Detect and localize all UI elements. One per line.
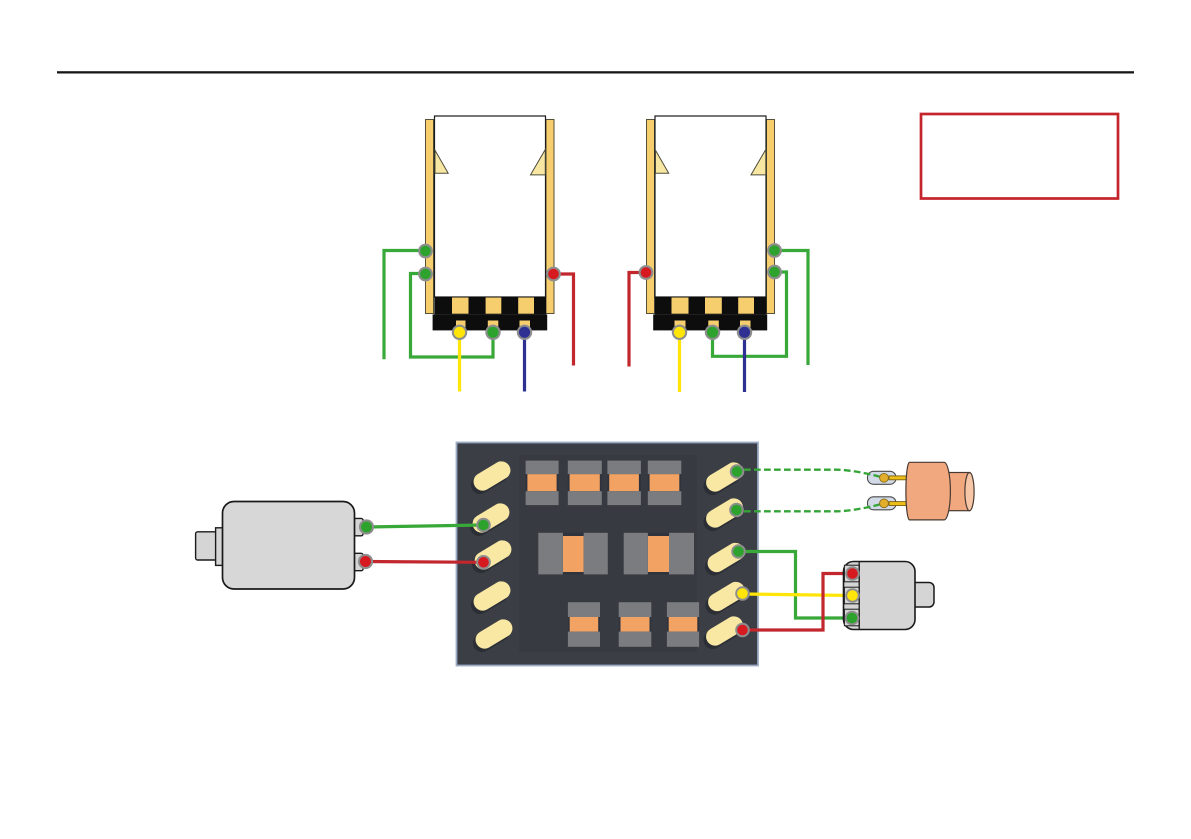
pad L2: [467, 503, 511, 539]
wire pot green (pad R3 to lug 3): [739, 552, 853, 619]
jack dot green: [359, 519, 374, 534]
pot lug cell 3: [844, 609, 859, 626]
output jack J1: [196, 502, 491, 590]
P1 solder dot green upper: [418, 244, 433, 259]
P2 body: [655, 116, 766, 297]
crimp terminal lower: [868, 497, 897, 510]
pad dot R4 yellow: [735, 586, 750, 601]
wire P1 red (from right dot, dangling): [554, 274, 574, 366]
pad dot R5 red: [735, 623, 750, 638]
jack lug tab upper: [354, 518, 364, 535]
capacitor C1: [538, 533, 608, 575]
resistor R1: [526, 461, 559, 506]
P2 baseplate gold square 2: [705, 298, 722, 314]
pot lug cell 2: [844, 587, 859, 604]
P1 lug tab 3: [520, 321, 531, 331]
pad R1: [700, 462, 744, 498]
pad L1: [468, 461, 512, 497]
P1 right gold rail: [546, 120, 554, 314]
pickup P2 (right humbucker, rear view): [629, 116, 808, 392]
wire jack red (to pad L3): [366, 560, 484, 564]
P1 baseplate lower row: [433, 314, 548, 330]
P2 baseplate gold square 1: [672, 298, 689, 314]
P2 baseplate gold square 3: [738, 298, 754, 314]
jack collar step: [216, 528, 225, 566]
crimp gold contact lower: [880, 499, 889, 508]
pad L3: [469, 540, 513, 576]
P2 baseplate lower row: [653, 314, 767, 330]
pot body: [844, 562, 916, 630]
P2 lug tab 1: [675, 321, 686, 331]
potentiometer VR1: [731, 544, 934, 637]
P2 left gold rail: [647, 120, 655, 314]
wire P2 green upper (to right, dangling): [775, 251, 809, 366]
P1 baseplate gold square 3: [518, 298, 534, 314]
pot divider line: [858, 562, 860, 630]
wire pot red (pad R5 to lug 1): [743, 574, 853, 631]
crimp terminal upper: [868, 471, 897, 484]
jack body: [223, 502, 355, 590]
resistor R7: [667, 602, 699, 647]
P2 lug tab 3: [740, 321, 751, 331]
pad R5: [700, 616, 744, 652]
wire jack green (to pad L2): [367, 525, 484, 527]
pad L5: [470, 619, 514, 655]
P2 right gold rail: [767, 120, 775, 314]
capacitor C2: [624, 533, 694, 575]
pot dot yellow: [845, 588, 860, 603]
P1 left gold rail: [426, 120, 434, 314]
P1 lug dot green: [485, 325, 500, 340]
wire P2 blue (dangling): [743, 333, 746, 392]
pad dot L3 red: [476, 555, 491, 570]
P2 lug dot yellow: [672, 325, 687, 340]
board substrate: [457, 443, 759, 666]
P1 lug dot blue: [517, 325, 532, 340]
wire P1 green upper (to left, dangling): [384, 251, 426, 360]
pickup P1 (left humbucker, rear view): [384, 116, 574, 392]
battery plug BT1: [729, 462, 974, 520]
P1 baseplate gold square 2: [486, 298, 502, 314]
pad R3: [702, 543, 746, 579]
P2 right corner flag: [751, 150, 766, 175]
pot dot green: [845, 611, 860, 626]
pot shaft: [910, 583, 934, 608]
pot dot red: [845, 566, 860, 581]
wire P2 red (to left, dangling): [629, 273, 646, 367]
pad L4: [468, 581, 512, 617]
P1 baseplate upper row: [434, 297, 546, 315]
pot lug cell 1: [844, 565, 859, 582]
P1 lug tab 1: [456, 321, 466, 331]
P1 baseplate gold square 1: [452, 298, 469, 314]
P2 solder dot green upper: [767, 243, 782, 258]
solderless terminal board U1: [457, 443, 759, 666]
plug pin lower: [889, 502, 908, 506]
resistor R5: [568, 602, 600, 647]
resistor R3: [607, 461, 641, 506]
wire dashed green lower (pad R2 to crimp): [744, 504, 883, 512]
P1 solder dot green lower: [418, 267, 433, 282]
wire P1 yellow (dangling): [458, 333, 461, 392]
pad dot R1 green: [730, 464, 745, 479]
P2 baseplate upper row: [655, 297, 767, 315]
P2 lug dot green: [705, 325, 720, 340]
P2 lug dot blue: [737, 325, 752, 340]
P2 lug tab 2: [708, 321, 719, 331]
wire P2 green lower (to green lug): [713, 272, 787, 356]
jack sleeve step: [196, 532, 218, 560]
P1 lug tab 2: [488, 321, 499, 331]
P1 lug dot yellow: [452, 325, 467, 340]
jack lug tab lower: [354, 553, 364, 570]
crimp gold contact upper: [880, 473, 889, 482]
P2 solder dot green lower: [767, 265, 782, 280]
P1 solder dot red: [546, 267, 561, 282]
P2 left corner flag: [656, 150, 669, 173]
plug small barrel: [944, 473, 974, 511]
pad dot R2 green: [729, 503, 744, 518]
P1 left corner flag: [435, 150, 448, 173]
plug large barrel: [906, 462, 951, 520]
wire P1 blue (dangling): [523, 333, 526, 392]
resistor R4: [648, 461, 682, 506]
pad R2: [700, 498, 744, 534]
top rule: [57, 71, 1134, 73]
wire P2 yellow (dangling): [678, 333, 681, 392]
board inner shade: [519, 455, 697, 652]
pad dot R3 green: [731, 544, 746, 559]
pad R4: [702, 582, 746, 618]
resistor R6: [619, 602, 652, 647]
resistor R2: [568, 461, 602, 506]
annotation box (empty red rectangle): [921, 114, 1118, 199]
P1 body: [435, 116, 546, 297]
wire P1 green lower (to green lug): [411, 274, 494, 358]
wire dashed green upper (pad R1 to crimp): [744, 470, 883, 478]
jack dot red: [358, 554, 373, 569]
plug pin upper: [889, 476, 908, 480]
P2 solder dot red: [639, 265, 654, 280]
P1 right corner flag: [531, 150, 546, 175]
pad dot L2 green: [476, 518, 491, 533]
wire pot yellow (pad R4 to lug 2): [743, 594, 853, 596]
